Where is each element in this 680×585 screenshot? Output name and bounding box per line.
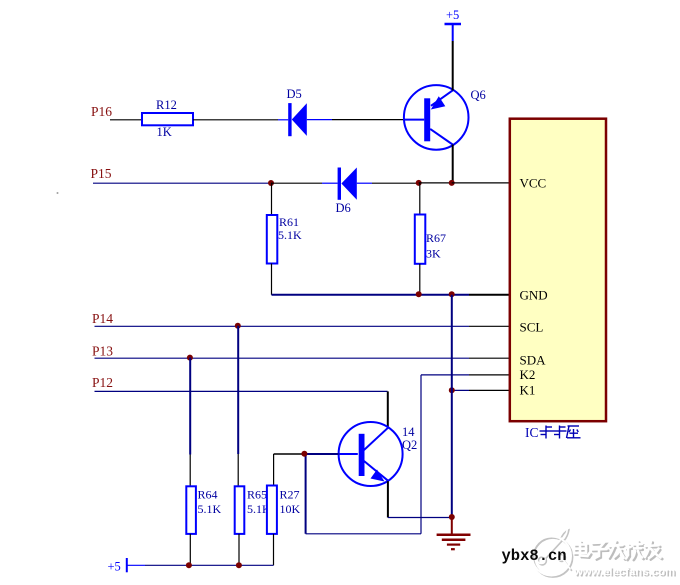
svg-text:ybx8.cn: ybx8.cn: [502, 547, 567, 565]
ground: [437, 535, 471, 550]
wire K1 stub: [469, 389, 510, 391]
wire SCL stub: [469, 325, 510, 327]
svg-text:www.elecfans.com: www.elecfans.com: [573, 566, 675, 578]
wire R67 to gnd bus: [419, 264, 421, 295]
svg-text:10K: 10K: [280, 502, 301, 516]
wire R27 bottom: [273, 534, 275, 565]
svg-text:R65: R65: [247, 488, 267, 502]
svg-text:GND: GND: [520, 288, 548, 303]
svg-text:SCL: SCL: [520, 319, 544, 334]
node junction gnd/down: [449, 291, 455, 297]
svg-text:VCC: VCC: [520, 176, 547, 191]
resistor R61: [267, 215, 302, 264]
node junction emitter/ground rail: [449, 514, 455, 520]
node junction VCC/R67: [416, 180, 422, 186]
svg-text:P15: P15: [91, 166, 112, 181]
node junction Q2 base: [301, 451, 307, 457]
svg-text:P14: P14: [92, 311, 113, 326]
wire P14/SCL: [95, 325, 470, 327]
svg-text:R12: R12: [156, 98, 177, 112]
svg-text:3K: 3K: [426, 247, 441, 261]
diode D6: [336, 168, 357, 215]
svg-text:Q2: Q2: [402, 438, 417, 452]
svg-text:1K: 1K: [157, 125, 172, 139]
svg-text:R61: R61: [279, 215, 299, 229]
node junction gnd/R67: [416, 291, 422, 297]
speck: [57, 192, 59, 194]
diode D5: [287, 87, 307, 136]
wire ground rail vertical: [451, 295, 453, 517]
svg-text:+5: +5: [446, 8, 459, 22]
wire R64 bottom: [189, 534, 191, 565]
svg-text:R64: R64: [198, 488, 218, 502]
wire GND stub: [469, 294, 510, 296]
wire R65 bottom: [238, 534, 240, 565]
transistor Q2: [339, 422, 418, 486]
watermark droplet: [532, 529, 572, 577]
wire P14 down to R65: [237, 326, 239, 487]
IC card socket U1: [510, 119, 606, 422]
wire R61 to gnd bus: [271, 264, 273, 295]
svg-text:K2: K2: [520, 367, 536, 382]
wire K2 stub: [469, 374, 510, 376]
node junction P14/R65: [235, 323, 241, 329]
wire P15 node to R61: [271, 183, 273, 215]
svg-text:SDA: SDA: [520, 353, 547, 368]
wire K2 to Q2 base: [306, 375, 469, 534]
resistor R27: [267, 486, 301, 534]
node junction K1: [449, 387, 455, 393]
resistor R67: [415, 215, 446, 264]
wire Q6 collector to VCC node: [452, 145, 454, 183]
svg-text:R27: R27: [280, 488, 300, 502]
wire Q2 base left: [274, 454, 339, 486]
svg-text:5.1K: 5.1K: [198, 502, 222, 516]
svg-text:P13: P13: [92, 344, 113, 359]
wire K1 to ground rail: [452, 389, 469, 391]
wire P13/SDA: [95, 357, 470, 359]
wire P12 to Q2 collector: [95, 391, 388, 427]
node junction P15/R61: [268, 180, 274, 186]
resistor R65: [235, 486, 271, 534]
power +5 bottom: [108, 558, 146, 574]
node junction P13/R64: [187, 355, 193, 361]
wire +5 bus: [145, 564, 274, 566]
wire R12 to D5: [193, 119, 288, 121]
power +5 top: [445, 8, 462, 41]
wire P13 down to R64: [189, 358, 191, 487]
svg-text:P16: P16: [91, 104, 112, 119]
svg-text:IC: IC: [525, 425, 539, 440]
wire: [419, 182, 452, 184]
svg-text:+5: +5: [108, 560, 121, 574]
resistor R12: [142, 98, 193, 139]
wire gnd bus: [272, 294, 470, 296]
svg-text:Q6: Q6: [471, 88, 486, 102]
wire P15: [93, 182, 271, 184]
svg-text:R67: R67: [426, 231, 446, 245]
wire D6 to VCC node: [357, 182, 419, 184]
wire P16 to R12: [110, 119, 142, 121]
svg-text:D5: D5: [287, 87, 302, 101]
transistor Q6: [404, 85, 486, 150]
svg-text:14: 14: [402, 425, 415, 439]
wire SDA stub: [469, 357, 510, 359]
wire VCC node to R67: [419, 183, 421, 215]
wire to D6: [271, 182, 338, 184]
wire to ground symbol: [451, 517, 453, 534]
svg-text:K1: K1: [520, 383, 536, 398]
svg-text:P12: P12: [92, 375, 113, 390]
IC socket label IC卡卡座: [525, 425, 581, 440]
wire Q2 emitter to ground rail: [388, 481, 452, 517]
node junction VCC/Q6: [449, 180, 455, 186]
resistor R64: [186, 486, 221, 534]
wire +5 to Q6 emitter: [452, 41, 454, 91]
wire VCC stub: [452, 182, 510, 184]
svg-text:5.1K: 5.1K: [278, 228, 302, 242]
node junction bus/R64: [186, 562, 192, 568]
node junction bus/R65: [236, 562, 242, 568]
wire D5 to Q6 base: [307, 119, 404, 121]
svg-text:D6: D6: [336, 201, 351, 215]
